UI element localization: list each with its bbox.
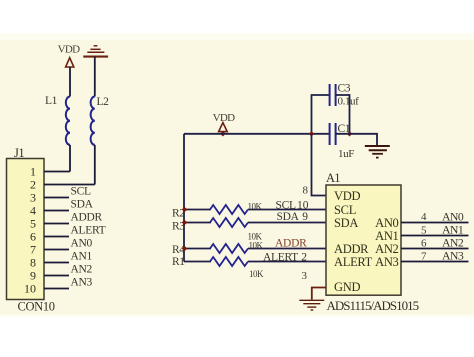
pin 7 stub AN3: [401, 261, 469, 263]
svg-text:ALERT: ALERT: [334, 255, 373, 269]
svg-text:6: 6: [30, 229, 36, 243]
resistor R1 value 10K: [249, 269, 264, 279]
svg-text:AN2: AN2: [71, 263, 93, 275]
J1 pin 9 stub (AN2): [44, 275, 69, 277]
connector J1 body: [7, 159, 45, 300]
svg-text:ADDR: ADDR: [275, 237, 307, 249]
svg-text:AN0: AN0: [71, 237, 93, 249]
capacitor C3 label: [338, 83, 351, 95]
capacitor C1: [330, 123, 336, 145]
svg-text:10K: 10K: [249, 269, 264, 279]
svg-text:AN3: AN3: [71, 276, 93, 288]
svg-text:1uF: 1uF: [338, 148, 354, 160]
svg-text:ADS1115/ADS1015: ADS1115/ADS1015: [327, 298, 419, 313]
inductor L1: [66, 97, 70, 172]
svg-text:SDA: SDA: [334, 216, 358, 230]
svg-text:2: 2: [301, 251, 307, 263]
svg-text:3: 3: [302, 270, 308, 282]
svg-text:AN1: AN1: [442, 222, 464, 236]
svg-text:ALERT: ALERT: [263, 251, 298, 263]
capacitor C3 value 0.1uf: [338, 96, 360, 108]
J1 pin 8 stub (AN1): [44, 262, 69, 264]
power VDD symbol middle: [213, 112, 235, 132]
resistor R3 (SDA, 10K): [184, 218, 326, 227]
svg-text:L1: L1: [45, 95, 58, 107]
IC A1 VDD feed wire (pin 8): [312, 134, 327, 196]
svg-text:SCL: SCL: [276, 199, 296, 211]
svg-text:AN3: AN3: [375, 255, 398, 269]
junction dot bus/R3: [182, 220, 187, 225]
IC A1 right pin numbers: [421, 211, 427, 263]
svg-text:8: 8: [303, 185, 309, 197]
IC A1 left pin names: [334, 189, 373, 294]
svg-text:7: 7: [421, 251, 427, 263]
resistor R4 (ADDR, 10K): [184, 244, 326, 253]
J1 pin 1 stub + wire to L1: [44, 171, 70, 173]
svg-text:SDA: SDA: [277, 211, 300, 223]
left vertical bus wire: [183, 134, 185, 262]
svg-text:1: 1: [30, 164, 36, 178]
svg-text:VDD: VDD: [58, 44, 80, 56]
schematic sheet background: [0, 33, 474, 317]
J1 pin 5 stub (ADDR): [44, 223, 69, 225]
svg-text:10K: 10K: [248, 201, 263, 211]
svg-text:4: 4: [30, 203, 36, 217]
svg-text:4: 4: [421, 211, 427, 223]
svg-text:VDD: VDD: [334, 189, 360, 203]
svg-text:AN2: AN2: [375, 242, 398, 256]
svg-text:10: 10: [24, 281, 36, 295]
svg-text:SCL: SCL: [334, 203, 356, 217]
resistor R4 value 10K: [249, 240, 264, 250]
inductor L1 label: [45, 95, 58, 107]
IC A1 right pin names: [375, 216, 398, 269]
net label SDA 9 on wire: [277, 211, 309, 223]
connector J1 value label CON10: [18, 300, 55, 314]
svg-text:GND: GND: [334, 280, 360, 294]
svg-text:CON10: CON10: [18, 300, 55, 314]
svg-text:5: 5: [30, 216, 36, 230]
svg-text:R1: R1: [172, 256, 185, 268]
junction dot bus/R4: [182, 246, 187, 251]
resistor R3 value 10K: [248, 231, 263, 241]
pin 6 stub AN2: [401, 248, 469, 250]
svg-text:AN0: AN0: [375, 216, 398, 230]
net label ALERT 2 on wire: [263, 251, 307, 263]
junction dot rail/C3 feed: [309, 131, 314, 136]
svg-text:10K: 10K: [249, 240, 264, 250]
IC A1 part number ADS1115/ADS1015: [327, 298, 419, 313]
J1 pin 7 stub (AN0): [44, 249, 69, 251]
svg-text:AN0: AN0: [442, 209, 464, 223]
resistor R3 label: [172, 221, 185, 233]
IC A1 refdes: [326, 171, 340, 185]
J1 pin 6 stub (ALERT): [44, 236, 69, 238]
pin 5 stub AN1: [401, 235, 469, 237]
junction dot under VDD: [220, 131, 225, 136]
svg-text:ADDR: ADDR: [334, 242, 369, 256]
pin 4 stub AN0: [401, 222, 469, 224]
capacitor C3: [330, 84, 336, 106]
svg-text:C3: C3: [338, 83, 351, 95]
svg-text:L2: L2: [97, 96, 110, 108]
resistor R4 label: [172, 244, 185, 256]
svg-text:J1: J1: [14, 146, 24, 160]
capacitor C1 label: [338, 123, 351, 135]
IC A1 left pin numbers: [302, 185, 309, 283]
J1 pin 3 stub (SCL): [44, 197, 69, 199]
wire C1 right to ground: [336, 134, 377, 146]
svg-text:0.1uf: 0.1uf: [338, 96, 360, 108]
svg-text:2: 2: [30, 177, 36, 191]
right net labels AN0-AN3: [442, 209, 464, 262]
wire C3 right to C1 right: [336, 95, 350, 134]
power VDD symbol top-left: [58, 44, 80, 97]
svg-text:AN1: AN1: [71, 250, 93, 262]
svg-text:8: 8: [30, 255, 36, 269]
svg-text:7: 7: [30, 242, 36, 256]
IC A1 GND pin wire (pin 3): [312, 288, 326, 300]
svg-text:AN3: AN3: [442, 248, 464, 262]
svg-text:SDA: SDA: [71, 198, 94, 210]
svg-text:VDD: VDD: [213, 112, 235, 124]
capacitor C1 value 1uF: [338, 148, 354, 160]
resistor R2 (SCL, 10K): [184, 205, 326, 214]
svg-text:5: 5: [421, 225, 427, 237]
svg-text:SCL: SCL: [71, 185, 91, 197]
inductor L2: [91, 97, 95, 185]
J1 pin 4 stub (SDA): [44, 210, 69, 212]
connector J1 refdes label: [14, 146, 24, 160]
svg-text:AN1: AN1: [375, 229, 398, 243]
ground symbol top-left (inverted): [83, 46, 108, 97]
resistor R2 label: [172, 208, 185, 220]
svg-text:9: 9: [30, 268, 36, 282]
J1 pin 10 stub (AN3): [44, 288, 69, 290]
J1 pin numbers 1-10: [24, 164, 36, 295]
svg-text:9: 9: [302, 211, 308, 223]
ground symbol right of C1: [365, 146, 390, 158]
resistor R1 label: [172, 256, 185, 268]
svg-text:R4: R4: [172, 244, 185, 256]
junction dot bus/R2: [182, 207, 187, 212]
ground symbol below IC: [299, 300, 324, 310]
resistor R1 (ALERT, 10K): [184, 257, 326, 266]
svg-text:10: 10: [297, 199, 309, 211]
J1 pin 2 stub + wire to L2: [44, 184, 95, 186]
junction dot C3/C1 right: [347, 131, 352, 136]
IC A1 body: [326, 185, 401, 295]
net label ADDR on wire: [275, 237, 307, 249]
VDD rail wire: [184, 133, 330, 135]
capacitor C3 feed wire from rail: [312, 95, 330, 134]
net label SCL 10 on wire: [276, 199, 309, 211]
svg-text:6: 6: [421, 238, 427, 250]
net labels at J1: [71, 185, 106, 288]
svg-text:AN2: AN2: [442, 235, 464, 249]
svg-text:A1: A1: [326, 171, 340, 185]
svg-text:ALERT: ALERT: [71, 224, 106, 236]
inductor L2 label: [97, 96, 110, 108]
svg-text:3: 3: [30, 190, 36, 204]
svg-text:ADDR: ADDR: [71, 211, 103, 223]
resistor R2 value 10K: [248, 201, 263, 211]
